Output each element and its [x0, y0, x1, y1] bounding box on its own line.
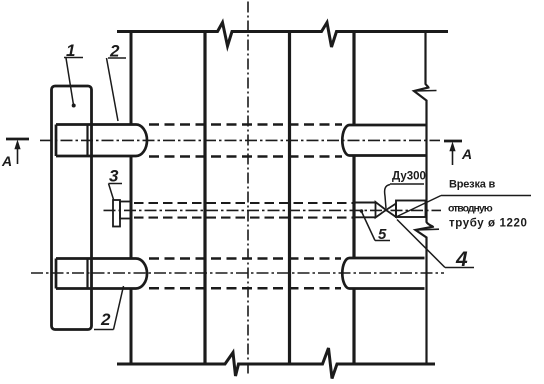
anchor block 1	[52, 86, 92, 330]
vertical axis centerline	[247, 2, 249, 375]
lower nozzle hidden wall (dashed top)	[149, 257, 341, 260]
small pipe 5 hidden wall (dashed bottom)	[134, 217, 355, 219]
svg-text:трубу ø 1220: трубу ø 1220	[449, 218, 527, 230]
callout 2 (upper) leader	[107, 58, 127, 121]
upper right nozzle body	[350, 125, 426, 156]
top casing pipe wall line with two break squiggles	[117, 23, 448, 48]
lower nozzle hidden wall (dashed bottom)	[149, 287, 341, 290]
lower nozzle 2 rounded cap	[136, 259, 147, 289]
svg-text:A: A	[1, 153, 12, 169]
upper nozzle hidden wall (dashed bottom)	[149, 155, 342, 158]
svg-text:Врезка в: Врезка в	[449, 179, 496, 191]
upper nozzle centerline	[40, 139, 440, 141]
lower nozzle flange line	[86, 259, 88, 289]
lower right nozzle body	[350, 258, 425, 289]
text leader (Врезка)	[397, 196, 531, 217]
lower nozzle 2 body	[56, 259, 136, 289]
callout 4 leader	[397, 220, 474, 268]
bottom casing pipe wall line with two break squiggles	[117, 348, 435, 379]
svg-text:отводную: отводную	[448, 202, 493, 214]
upper nozzle 2 body	[56, 125, 136, 157]
upper right nozzle rounded cap	[342, 125, 349, 156]
svg-text:Ду300: Ду300	[392, 171, 426, 183]
branch outlet spool piece	[396, 201, 426, 218]
valve 4 left body	[376, 202, 387, 218]
upper nozzle 2 rounded cap	[136, 125, 147, 157]
svg-text:3: 3	[109, 167, 119, 186]
casing pipe left wall (vertical)	[130, 32, 133, 365]
valve 4 right body	[386, 204, 396, 218]
callout 2 (lower) leader	[94, 286, 124, 330]
lower right nozzle rounded cap	[342, 258, 349, 289]
inner pipe left wall (vertical)	[203, 32, 206, 365]
svg-text:2: 2	[109, 42, 120, 61]
small pipe 5 centerline	[104, 209, 442, 211]
upper nozzle hidden wall (dashed top)	[149, 123, 342, 126]
break squiggle wing (upper)	[414, 90, 437, 93]
inner pipe right wall (vertical)	[288, 32, 291, 365]
svg-text:4: 4	[455, 248, 468, 271]
upper nozzle flange line	[86, 125, 88, 157]
callout 1 leader	[64, 58, 83, 106]
Ду300 label leader	[385, 184, 424, 209]
branch pipe right wall with two break squiggles	[414, 32, 433, 365]
section arrow A (left)	[6, 138, 29, 141]
svg-text:1: 1	[66, 41, 75, 60]
svg-text:2: 2	[100, 310, 111, 329]
callout 5 leader	[362, 212, 391, 241]
svg-text:5: 5	[378, 226, 387, 243]
break squiggle wing (lower)	[416, 228, 440, 231]
small pipe 5 hidden wall (dashed top)	[134, 202, 355, 204]
casing pipe right wall (vertical)	[352, 32, 355, 365]
svg-text:A: A	[461, 146, 472, 162]
tapping device 3 handle cap	[113, 200, 120, 227]
callout 3 leader	[109, 184, 123, 200]
tapping device 3 boss	[120, 202, 132, 219]
section arrow A (right)	[444, 140, 462, 143]
small pipe 5 visible stub walls	[355, 203, 376, 218]
lower nozzle centerline	[31, 272, 444, 274]
